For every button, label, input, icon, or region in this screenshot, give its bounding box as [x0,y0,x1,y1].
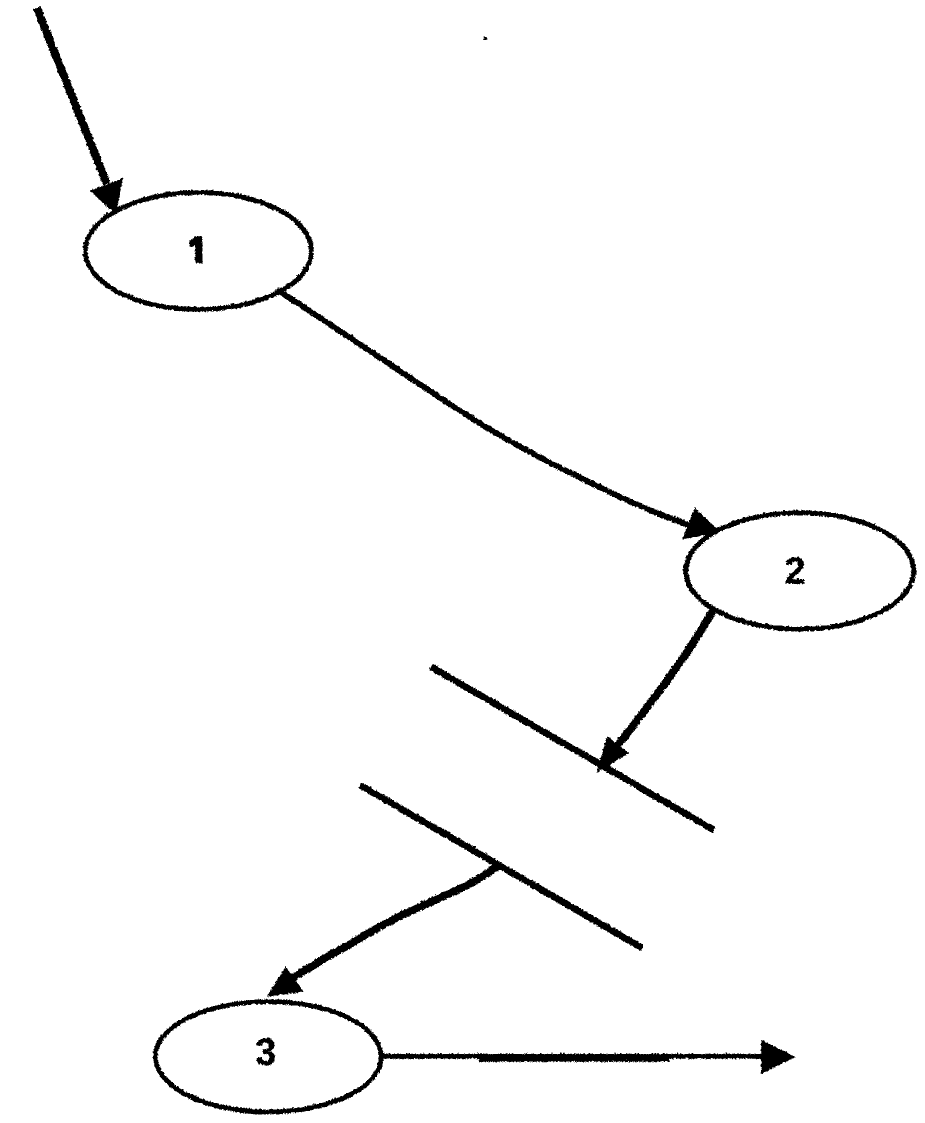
wire: exit arrow from node 3 to the right [379,1053,764,1058]
svg-text:2: 2 [784,550,805,592]
node 1 (ellipse) [85,192,311,309]
arrowhead on start arrow [92,180,120,211]
wire: start arrow shaft into node 1 [36,7,106,183]
arrowhead onto break bar [598,738,625,769]
wire: edge from node 2 down to break bar [606,610,712,758]
speck [483,36,486,39]
svg-text:3: 3 [254,1031,275,1073]
arrowhead into node 3 [269,969,300,995]
node 2 (ellipse) [685,512,913,628]
thicker overlap on exit arrow shaft [478,1053,669,1061]
arrowhead into node 2 [684,510,716,537]
arrowhead on exit arrow [761,1040,794,1073]
break bar (upper slash) [430,666,713,829]
wire: edge from lower bar to node 3 [290,864,499,978]
wire: edge from node 1 to node 2 [276,289,708,532]
node 3 (ellipse) [155,1001,381,1111]
node 1 label [189,236,202,263]
break bar (lower slash) [359,784,641,947]
